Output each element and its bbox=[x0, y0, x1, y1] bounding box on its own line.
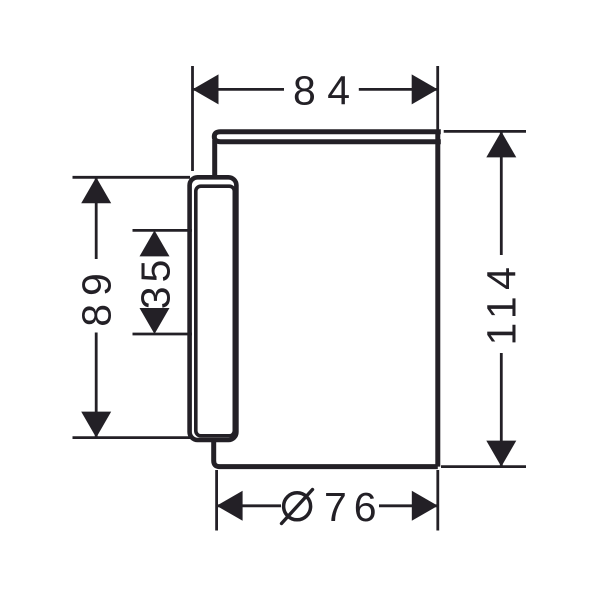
dim 84 line right segment bbox=[359, 88, 438, 91]
dim 84 right extension line bbox=[436, 66, 439, 131]
dim 114 line lower segment bbox=[500, 353, 503, 467]
top plate bbox=[214, 132, 440, 142]
dim 114 line upper segment bbox=[500, 131, 503, 255]
dim 84 left extension line bbox=[191, 66, 194, 171]
dim 89 bottom extension line bbox=[73, 436, 191, 439]
dim 76 left extension line bbox=[215, 470, 218, 531]
dim 114 top arrow bbox=[486, 131, 516, 157]
svg-text:35: 35 bbox=[133, 256, 179, 310]
dim 84 right arrow bbox=[412, 74, 438, 104]
dim 84 left arrow bbox=[193, 74, 219, 104]
dim 76 diameter symbol bbox=[284, 493, 311, 520]
dim 76 left arrow bbox=[217, 491, 243, 521]
dim 35 top arrow bbox=[140, 230, 170, 256]
svg-text:8 4: 8 4 bbox=[293, 68, 350, 114]
dim 89 line upper segment bbox=[95, 177, 98, 259]
wall plate inner bbox=[196, 186, 235, 436]
dim 89 top arrow bbox=[81, 177, 111, 203]
dim 76 line left segment bbox=[217, 504, 281, 507]
dim 89 top extension line bbox=[73, 176, 191, 179]
wall plate outer bbox=[190, 177, 237, 440]
dim 35 bottom arrow bbox=[140, 308, 170, 334]
dim 89 bottom arrow bbox=[81, 412, 111, 438]
dim 76 right arrow bbox=[412, 491, 438, 521]
svg-text:76: 76 bbox=[324, 484, 384, 530]
dim 76 right extension line bbox=[436, 470, 439, 531]
dim 35 bottom extension line bbox=[133, 333, 193, 336]
svg-text:114: 114 bbox=[479, 261, 525, 346]
dim 84 line left segment bbox=[193, 88, 285, 91]
dim 89 line lower segment bbox=[95, 333, 98, 438]
svg-text:89: 89 bbox=[74, 265, 120, 327]
body lower-left and bottom edge bbox=[214, 439, 438, 467]
body right edge bbox=[435, 132, 440, 467]
dim 76 line right segment bbox=[379, 504, 438, 507]
dim 114 bottom arrow bbox=[486, 441, 516, 467]
dim 114 top extension line bbox=[444, 130, 526, 133]
body left edge upper bbox=[212, 140, 217, 176]
dim 114 bottom extension line bbox=[441, 465, 526, 468]
dim 35 top extension line bbox=[133, 229, 193, 232]
